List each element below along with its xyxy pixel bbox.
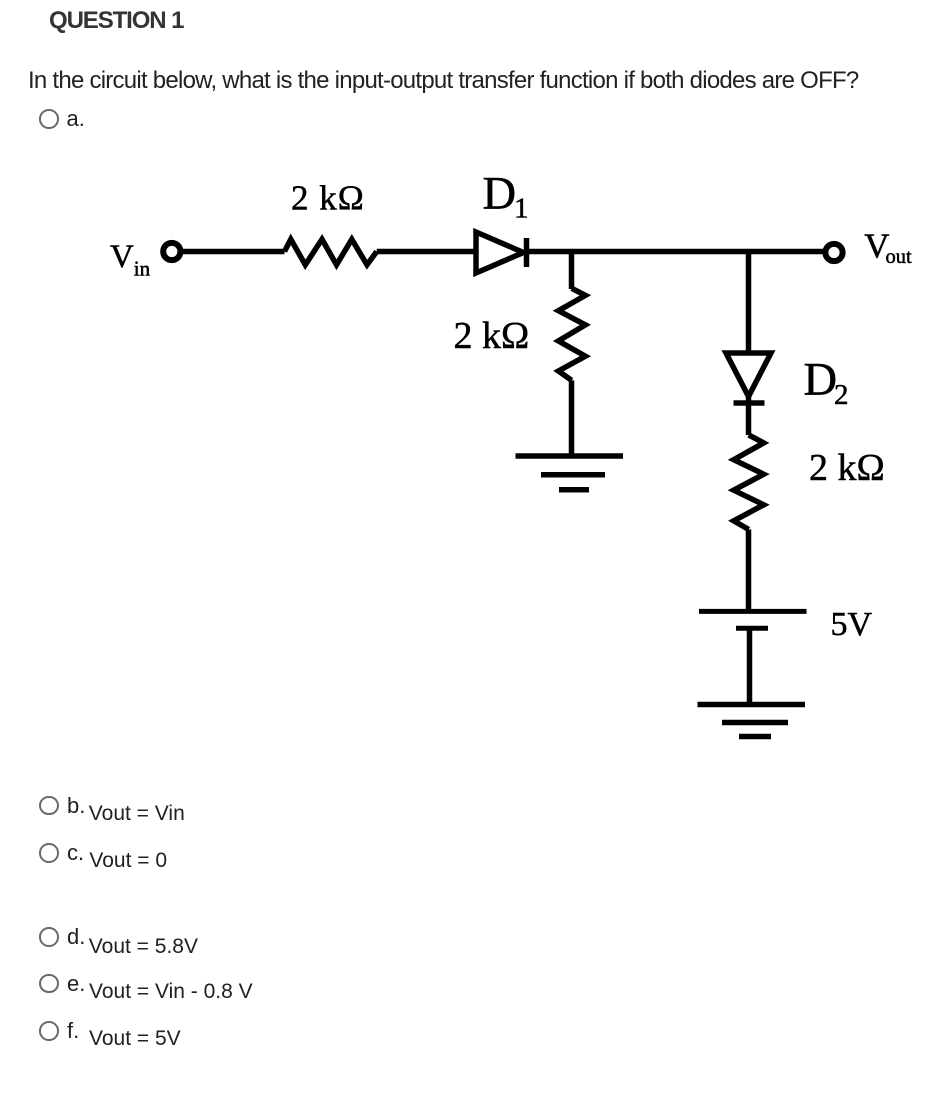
node A wire down from main wire — [569, 252, 575, 290]
label D2 — [804, 355, 849, 412]
label Vin — [110, 239, 151, 281]
option b letter — [67, 795, 85, 817]
svg-text:D: D — [483, 169, 517, 220]
node B wire down from main wire — [746, 252, 752, 353]
option e radio — [39, 974, 59, 994]
question text — [28, 69, 858, 93]
wire D1 to Vout — [529, 249, 825, 255]
label R3 value 2 kOhm — [809, 447, 885, 489]
svg-text:V: V — [110, 239, 134, 275]
option a letter — [67, 108, 85, 130]
option b radio — [39, 796, 59, 816]
option e answer — [89, 981, 253, 1002]
option d answer — [89, 936, 198, 957]
ground G2 — [698, 705, 806, 737]
option f answer — [89, 1028, 181, 1049]
resistor R2 (2 kOhm, vertical) — [558, 288, 585, 380]
wire R2 to ground — [569, 380, 575, 456]
resistor R1 (2 kOhm, horizontal) — [285, 239, 377, 264]
label D1 — [483, 169, 529, 225]
svg-text:2 kΩ: 2 kΩ — [809, 447, 885, 489]
option b answer — [89, 803, 185, 824]
svg-text:D: D — [804, 355, 838, 406]
diode D1 — [476, 232, 527, 273]
wire R1 to D1 — [377, 249, 474, 255]
svg-text:out: out — [886, 246, 913, 268]
option c answer — [89, 850, 167, 871]
svg-text:1: 1 — [514, 193, 529, 225]
wire R3 to battery — [746, 530, 752, 610]
terminal Vin — [163, 243, 180, 260]
label R2 value 2 kOhm — [454, 315, 530, 357]
option d letter — [67, 926, 85, 948]
option d radio — [39, 927, 59, 947]
wire battery to ground — [747, 628, 753, 704]
circuit schematic SVG — [0, 0, 938, 780]
wire D2 to R3 — [746, 396, 752, 435]
label battery value 5V — [831, 606, 873, 643]
battery V1 5V — [699, 611, 807, 628]
svg-text:2 kΩ: 2 kΩ — [291, 179, 365, 218]
diode D2 — [726, 353, 771, 403]
option a radio — [39, 109, 59, 129]
option e letter — [67, 973, 85, 995]
question title — [49, 9, 183, 33]
ground G1 — [516, 456, 624, 490]
option c radio — [39, 843, 59, 863]
resistor R3 (2 kOhm, vertical) — [734, 435, 764, 530]
option f letter — [67, 1020, 79, 1042]
option f radio — [39, 1021, 59, 1041]
option c letter — [67, 842, 84, 864]
label R1 value 2 kOhm — [291, 179, 365, 218]
svg-text:in: in — [134, 257, 151, 281]
svg-text:5V: 5V — [831, 606, 873, 643]
label Vout — [864, 227, 912, 269]
wire Vin to R1 — [181, 249, 285, 255]
svg-text:2 kΩ: 2 kΩ — [454, 315, 530, 357]
svg-text:2: 2 — [834, 379, 849, 411]
terminal Vout — [825, 244, 842, 261]
